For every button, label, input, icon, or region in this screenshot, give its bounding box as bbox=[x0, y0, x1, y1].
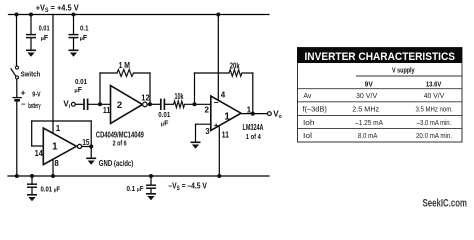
svg-text:13.6V: 13.6V bbox=[426, 80, 442, 89]
svg-text:μF: μF bbox=[74, 87, 82, 94]
capacitor 0.1uF bypass (top) bbox=[69, 35, 79, 38]
wire bottom cap 0.01 stems bbox=[31, 176, 33, 184]
wire 20k feedback left vertical bbox=[194, 73, 196, 104]
svg-text:–1.25 mA: –1.25 mA bbox=[355, 118, 384, 127]
svg-text:9V: 9V bbox=[365, 80, 374, 89]
table frame bbox=[298, 48, 463, 143]
svg-text:11: 11 bbox=[103, 106, 111, 115]
table INVERTER CHARACTERISTICS bbox=[297, 48, 462, 143]
wire 1M feedback top left bbox=[100, 72, 117, 74]
svg-text:SeekIC.com: SeekIC.com bbox=[423, 197, 468, 209]
terminal Vo bbox=[268, 112, 272, 116]
capacitor 0.01uF bypass (bottom) bbox=[27, 184, 37, 187]
svg-text:μF: μF bbox=[41, 35, 49, 42]
wire top supply rail bbox=[9, 14, 270, 16]
svg-text:40 V/V: 40 V/V bbox=[424, 91, 445, 100]
wire inverter1 input pin14 bbox=[32, 145, 44, 147]
battery B1 9V bbox=[12, 98, 21, 101]
wire opamp output to Vo bbox=[241, 113, 267, 115]
resistor 1M feedback bbox=[117, 70, 134, 77]
node bottom rail junctions bbox=[15, 174, 222, 178]
wire inverter2 output to cap bbox=[147, 103, 160, 105]
svg-text:10k: 10k bbox=[175, 92, 184, 101]
svg-text:1: 1 bbox=[52, 142, 58, 153]
wire battery branch upper bbox=[16, 15, 18, 67]
wire battery to bottom rail bbox=[16, 101, 18, 176]
ground bbox=[146, 194, 156, 200]
svg-text:1 of 4: 1 of 4 bbox=[246, 132, 262, 141]
svg-text:2.5 MHz: 2.5 MHz bbox=[352, 105, 379, 114]
ground GND node bbox=[86, 158, 96, 164]
svg-text:Ioh: Ioh bbox=[303, 118, 315, 127]
svg-text:3.5 MHz nom.: 3.5 MHz nom. bbox=[415, 105, 453, 114]
svg-text:8.0 mA: 8.0 mA bbox=[358, 131, 378, 140]
resistor 20k feedback bbox=[229, 70, 242, 77]
svg-text:f(–3dB): f(–3dB) bbox=[302, 105, 327, 114]
wire bypass cap1 stems bbox=[30, 15, 32, 35]
svg-text:0.1: 0.1 bbox=[80, 23, 89, 32]
svg-text:−: − bbox=[214, 98, 219, 108]
wire switch to battery bbox=[16, 79, 18, 97]
svg-text:μF: μF bbox=[80, 35, 88, 42]
svg-text:0.01 μF: 0.01 μF bbox=[41, 185, 61, 194]
wire 10k to node bbox=[185, 103, 212, 105]
node inverting input junction bbox=[193, 102, 197, 106]
svg-text:3: 3 bbox=[205, 127, 210, 136]
svg-text:2: 2 bbox=[205, 106, 210, 115]
svg-text:2: 2 bbox=[117, 100, 122, 111]
svg-text:1: 1 bbox=[56, 124, 61, 133]
node 11 junction bbox=[98, 102, 102, 106]
svg-text:20.0 mA min.: 20.0 mA min. bbox=[416, 131, 452, 140]
svg-text:–3.0 mA min.: –3.0 mA min. bbox=[417, 118, 452, 127]
svg-text:0.01: 0.01 bbox=[39, 23, 50, 32]
wire gnd node stem bbox=[90, 147, 92, 159]
wire opamp pin11 supply bbox=[218, 127, 220, 176]
wire cap to 10k bbox=[165, 103, 174, 105]
svg-text:+: + bbox=[214, 120, 219, 130]
svg-text:Switch: Switch bbox=[21, 69, 41, 78]
ground bbox=[69, 50, 79, 56]
terminal Vi bbox=[71, 102, 75, 106]
svg-text:0.01: 0.01 bbox=[75, 77, 87, 86]
svg-text:11: 11 bbox=[222, 130, 230, 139]
svg-text:1: 1 bbox=[224, 111, 230, 122]
svg-text:8: 8 bbox=[54, 159, 59, 168]
switch S1 bbox=[11, 66, 19, 79]
op-amp U2 LM324A bbox=[211, 96, 241, 131]
svg-text:15: 15 bbox=[82, 138, 89, 147]
wire 20k feedback top right bbox=[242, 72, 253, 74]
wire 20k feedback right vertical bbox=[252, 73, 254, 114]
svg-text:30 V/V: 30 V/V bbox=[356, 91, 378, 100]
wire bottom supply rail bbox=[8, 175, 269, 177]
node output junction bbox=[251, 112, 255, 116]
resistor 10k bbox=[174, 101, 185, 108]
wire opamp pin3 horizontal bbox=[196, 123, 212, 125]
wire inverter1 feedback left vertical bbox=[31, 121, 33, 146]
node top rail junctions bbox=[15, 13, 221, 17]
inverter U1b CD4049 (2) bbox=[111, 86, 148, 124]
node gnd junction bbox=[89, 144, 93, 148]
svg-text:–VS = –4.5 V: –VS = –4.5 V bbox=[168, 180, 207, 192]
svg-text:GND (ac/dc): GND (ac/dc) bbox=[99, 159, 134, 168]
svg-text:Av: Av bbox=[303, 91, 311, 100]
ground bbox=[26, 50, 36, 56]
svg-text:2 of 6: 2 of 6 bbox=[113, 138, 127, 147]
svg-text:LM324A: LM324A bbox=[243, 123, 264, 132]
wire inverter1 output to gnd node bbox=[82, 146, 92, 148]
table header bar bbox=[297, 48, 462, 64]
capacitor 0.01uF input coupling bbox=[84, 99, 88, 110]
svg-text:battery: battery bbox=[28, 101, 40, 110]
svg-text:+VS = +4.5 V: +VS = +4.5 V bbox=[36, 3, 79, 15]
wire bypass cap2 stems bbox=[73, 15, 75, 35]
node output junction bbox=[148, 102, 152, 106]
wire 20k feedback top left bbox=[195, 72, 230, 74]
ground bbox=[27, 195, 37, 201]
wire 1M feedback top right bbox=[134, 72, 151, 74]
wire VDD pin1 line bbox=[52, 15, 54, 134]
svg-text:V supply: V supply bbox=[392, 66, 415, 75]
svg-text:9-V: 9-V bbox=[32, 90, 40, 99]
wire inverter1 feedback right vertical bbox=[90, 121, 92, 147]
svg-text:1 M: 1 M bbox=[119, 61, 131, 70]
svg-text:4: 4 bbox=[221, 90, 226, 99]
svg-text:Iol: Iol bbox=[303, 131, 312, 140]
ground pin3 bbox=[191, 142, 201, 148]
wire cap to node 11 bbox=[88, 103, 111, 105]
wire Vi terminal to cap bbox=[75, 103, 83, 105]
wire opamp pin3 ground stem bbox=[195, 124, 197, 142]
svg-text:–: – bbox=[21, 99, 26, 109]
svg-text:14: 14 bbox=[35, 149, 44, 158]
wire opamp pin4 supply bbox=[217, 15, 219, 100]
svg-text:μF: μF bbox=[161, 121, 169, 128]
svg-text:20k: 20k bbox=[230, 62, 240, 71]
wire inverter1 feedback top bbox=[32, 120, 91, 122]
svg-text:+: + bbox=[21, 87, 26, 97]
svg-text:12: 12 bbox=[141, 94, 150, 103]
svg-text:0.01: 0.01 bbox=[158, 110, 170, 119]
wire inverter1 pin8 to bottom rail bbox=[52, 160, 54, 177]
wire 1M feedback left vertical bbox=[99, 73, 101, 104]
wire bottom cap 0.1 stems bbox=[150, 176, 152, 185]
wire 1M feedback right vertical bbox=[149, 73, 151, 104]
svg-text:0.1 μF: 0.1 μF bbox=[127, 184, 144, 193]
inverter U1a CD4049 (1) bbox=[43, 128, 81, 165]
capacitor 0.01uF coupling to opamp bbox=[161, 99, 165, 110]
capacitor 0.1uF bypass (bottom) bbox=[146, 185, 156, 188]
capacitor 0.01uF bypass (top left) bbox=[26, 35, 36, 38]
svg-text:INVERTER CHARACTERISTICS: INVERTER CHARACTERISTICS bbox=[305, 51, 456, 63]
